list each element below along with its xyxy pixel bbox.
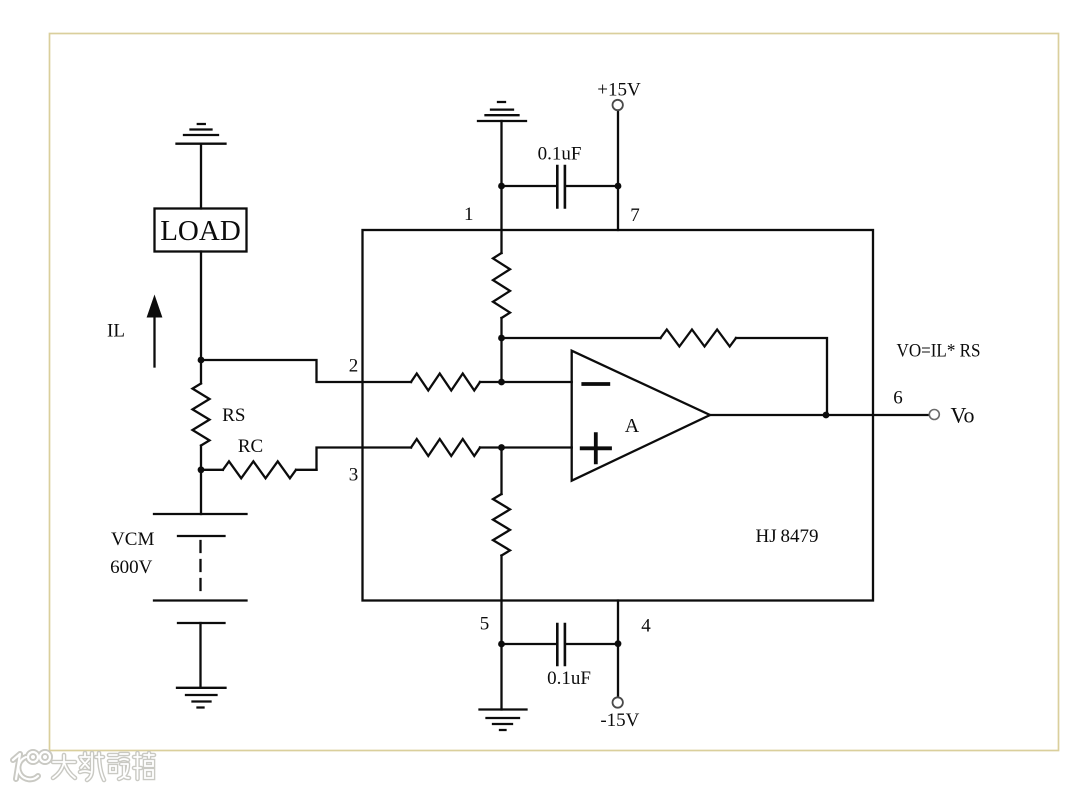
node J (output/feedback junction): [823, 412, 830, 419]
svg-text:4: 4: [641, 616, 651, 637]
ground G3 (top-center, inverted): [478, 102, 526, 121]
terminal -15V: [600, 697, 639, 731]
ground G1 (top-left, inverted): [177, 124, 226, 144]
node A (junction dot at LOAD/RS/pin2 branch): [198, 357, 205, 364]
wire node C to minus node: [500, 338, 502, 382]
svg-text:1: 1: [464, 204, 474, 225]
terminal +15V: [597, 80, 641, 111]
svg-text:0.1uF: 0.1uF: [538, 144, 582, 165]
svg-text:IL: IL: [107, 321, 125, 342]
wire R3 to op-amp plus: [480, 446, 572, 448]
resistor RS: [193, 360, 246, 470]
LOAD box: [155, 209, 247, 252]
wire +15V terminal down through pin 7: [617, 110, 619, 230]
feedback wire left segment: [502, 337, 661, 339]
capacitor C2 0.1uF (bottom): [502, 624, 619, 689]
op-amp A: [572, 351, 710, 481]
resistor R4 (pin 5 internal): [493, 494, 510, 556]
svg-text:RC: RC: [238, 436, 263, 457]
node H (pin1 wire/cap junction): [498, 183, 505, 190]
svg-text:3: 3: [349, 465, 359, 486]
feedback wire right + down segment: [736, 338, 827, 415]
resistor RC: [201, 436, 317, 478]
wire node A to pin 2 (with jog): [201, 360, 411, 382]
svg-text:VCM: VCM: [111, 529, 154, 550]
svg-text:6: 6: [893, 388, 903, 409]
battery VCM 600V: [110, 470, 246, 688]
svg-text:2: 2: [349, 356, 359, 377]
resistor R1 (pin 1 internal): [493, 253, 510, 318]
output wire op-amp to Vo terminal: [710, 414, 929, 416]
watermark logo (1oo mark): [13, 752, 50, 779]
resistor R2 (pin 2 input): [411, 374, 480, 391]
capacitor C1 0.1uF (top): [502, 144, 619, 208]
terminal Vo: [929, 403, 974, 428]
svg-text:A: A: [625, 415, 640, 437]
wire node F to ground G4: [500, 644, 502, 710]
resistor R3 (pin 3 input): [411, 439, 480, 456]
wire R2 to op-amp minus: [480, 381, 572, 383]
svg-text:Vo: Vo: [950, 403, 974, 428]
svg-text:-15V: -15V: [600, 710, 639, 731]
current arrow IL: [107, 296, 162, 367]
wire LOAD to node A: [200, 252, 202, 361]
node E (plus input junction): [498, 444, 505, 451]
svg-text:5: 5: [480, 614, 490, 635]
svg-text:+15V: +15V: [597, 80, 641, 101]
svg-text:VO=IL* RS: VO=IL* RS: [897, 341, 981, 362]
wire RC to pin 3: [317, 448, 412, 470]
IC box U1 HJ8479: [363, 230, 874, 601]
node C (feedback junction): [498, 335, 505, 342]
node F (pin5/cap junction): [498, 641, 505, 648]
wire R4 through pin 5 to cap node: [500, 556, 502, 645]
svg-text:RS: RS: [222, 405, 245, 426]
wire ground G3 down through pin 1: [500, 121, 502, 253]
svg-text:HJ 8479: HJ 8479: [756, 526, 819, 547]
svg-text:LOAD: LOAD: [160, 215, 241, 247]
resistor R5 (feedback): [661, 330, 737, 347]
node I (pin7 wire/cap junction): [615, 183, 622, 190]
wire node E down to R4: [500, 448, 502, 495]
watermark text 大数跨境: [53, 753, 154, 780]
ground G2 (below battery): [177, 688, 226, 708]
wire pin 4 down to -15V terminal: [617, 601, 619, 698]
wire ground G1 to LOAD: [200, 144, 202, 209]
node D (minus input junction): [498, 379, 505, 386]
wire R1 to feedback node: [500, 318, 502, 338]
svg-text:7: 7: [630, 205, 640, 226]
node G (pin4/cap junction): [615, 640, 622, 647]
node B (junction RS/RC/battery): [198, 466, 205, 473]
svg-text:600V: 600V: [110, 557, 153, 578]
ground G4 (bottom-center): [480, 710, 527, 731]
svg-text:0.1uF: 0.1uF: [547, 668, 591, 689]
